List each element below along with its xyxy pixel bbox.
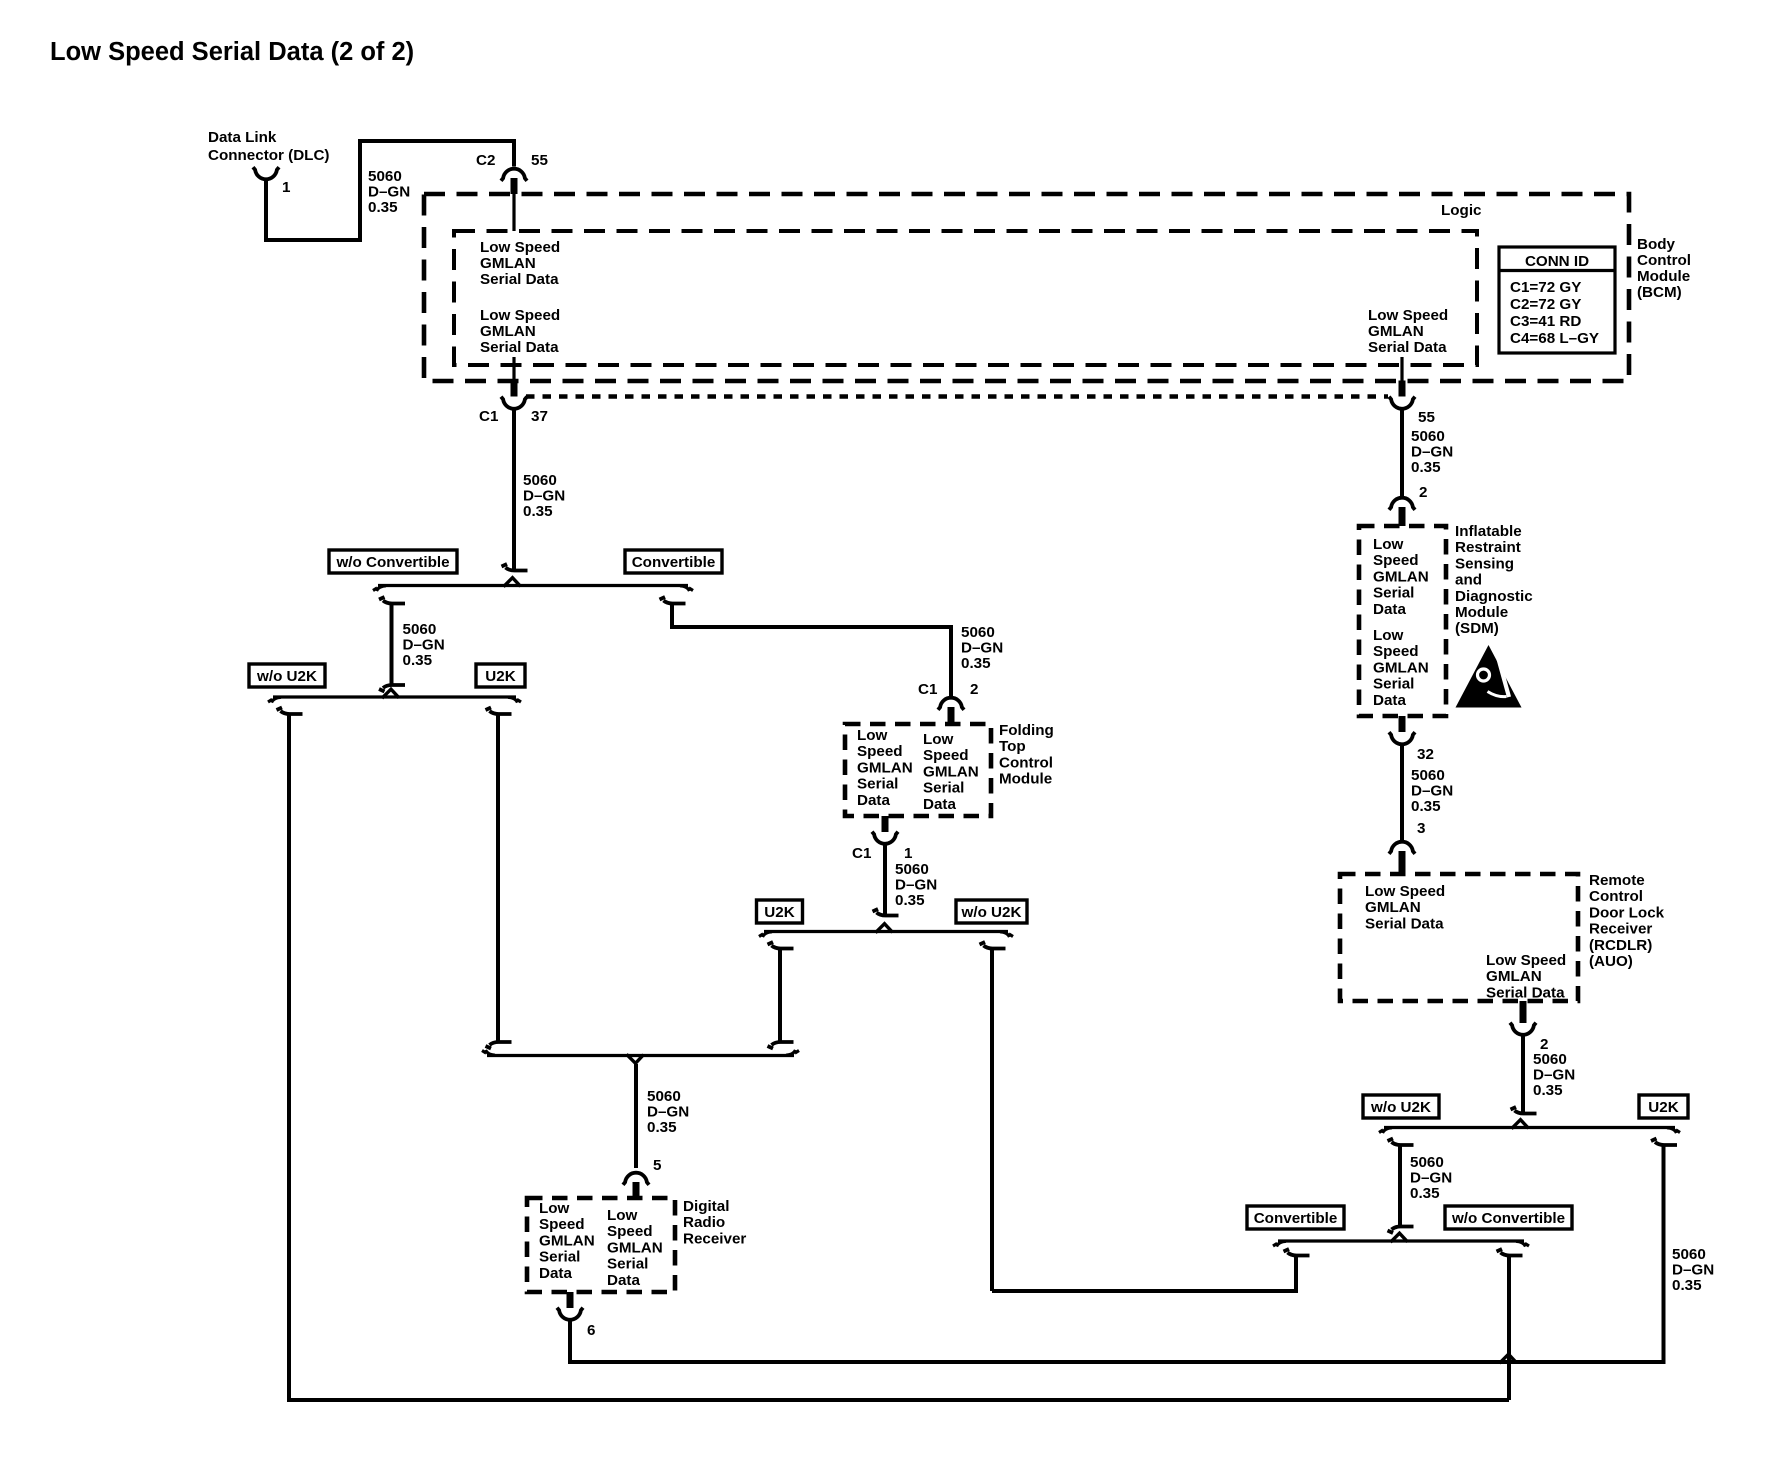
connector pin 2 (SDM) <box>1389 484 1427 526</box>
svg-text:Serial Data: Serial Data <box>1368 339 1447 356</box>
svg-text:Convertible: Convertible <box>1254 1210 1338 1227</box>
wire: DRR pin 6 to right-side bus <box>570 1321 1664 1364</box>
module box: Digital Radio Receiver <box>527 1198 675 1292</box>
node: Low Speed GMLAN Serial Data (SDM input) <box>1373 536 1429 618</box>
splice: radio junction gather line <box>482 1050 799 1063</box>
svg-text:Convertible: Convertible <box>632 554 716 571</box>
svg-text:Low: Low <box>607 1207 638 1224</box>
wire label 5060 D-GN 0.35 (FTCM drop) <box>895 861 937 909</box>
svg-text:Radio: Radio <box>683 1214 725 1231</box>
svg-text:(AUO): (AUO) <box>1589 953 1633 970</box>
option box: w/o U2K (FTCM branch) <box>956 900 1027 923</box>
connector pin 2 (RCDLR exit) <box>1510 1001 1548 1053</box>
svg-text:0.35: 0.35 <box>523 503 553 520</box>
svg-text:Sensing: Sensing <box>1455 555 1514 572</box>
wire: RCDLR 2 down to U2K option splice (5060 D-GN 0.35) <box>1521 1036 1525 1114</box>
svg-text:Serial: Serial <box>1373 676 1414 693</box>
wire: U2K branch (FTCM) down to radio junction <box>768 942 794 1049</box>
module box: Remote Control Door Lock Receiver (RCDLR) (AUO) <box>1340 874 1578 1001</box>
wire: DLC pin 1 to BCM C2 pin 55 (5060 D-GN 0.35) <box>266 141 514 240</box>
svg-text:Speed: Speed <box>857 743 903 760</box>
svg-text:2: 2 <box>1419 484 1427 501</box>
wire: U2K branch down to radio junction <box>486 708 512 1049</box>
svg-text:Low: Low <box>857 727 888 744</box>
svg-text:55: 55 <box>1418 409 1435 426</box>
svg-text:Serial Data: Serial Data <box>480 339 559 356</box>
svg-text:C1: C1 <box>852 845 872 862</box>
node: Low Speed GMLAN Serial Data (DRR output) <box>607 1207 663 1289</box>
svg-text:Low Speed: Low Speed <box>1486 952 1566 969</box>
svg-text:GMLAN: GMLAN <box>1373 568 1429 585</box>
module box: Inflatable Restraint Sensing and Diagnostic Module (SDM) <box>1359 526 1446 716</box>
svg-text:Diagnostic: Diagnostic <box>1455 588 1533 605</box>
wire: w/o Convertible branch down to bottom bus <box>1497 1249 1523 1400</box>
node: Low Speed GMLAN Serial Data (DRR input) <box>539 1200 595 1282</box>
svg-text:w/o Convertible: w/o Convertible <box>1451 1210 1565 1227</box>
svg-text:C1: C1 <box>918 681 938 698</box>
svg-text:Module: Module <box>1455 604 1508 621</box>
svg-text:Serial: Serial <box>607 1256 648 1273</box>
wire: junction down to Digital Radio Receiver pin 5 (5060 D-GN 0.35) <box>634 1064 638 1168</box>
wire: SDM 32 to RCDLR pin 3 (5060 D-GN 0.35) <box>1400 746 1404 841</box>
svg-text:GMLAN: GMLAN <box>923 763 979 780</box>
wire label 5060 D-GN 0.35 (w/o Convertible segment) <box>403 621 445 669</box>
svg-text:C2=72 GY: C2=72 GY <box>1510 296 1581 313</box>
option box: w/o Convertible <box>329 550 457 573</box>
label: Inflatable Restraint Sensing and Diagnostic Module (SDM) <box>1455 523 1533 637</box>
label: Body Control Module (BCM) <box>1637 236 1691 301</box>
svg-text:GMLAN: GMLAN <box>857 759 913 776</box>
label: Folding Top Control Module <box>999 722 1054 788</box>
svg-text:and: and <box>1455 572 1482 589</box>
svg-text:C1=72 GY: C1=72 GY <box>1510 279 1581 296</box>
module box: Body Control Module (BCM) <box>424 194 1629 381</box>
connector pin 32 (SDM exit) <box>1389 716 1434 763</box>
svg-text:1: 1 <box>904 845 913 862</box>
wire label 5060 D-GN 0.35 (radio drop) <box>647 1088 689 1136</box>
wire: FTCM C1-1 down to U2K splice (5060 D-GN 0.35) <box>883 845 887 916</box>
svg-text:w/o U2K: w/o U2K <box>256 668 317 685</box>
svg-text:Low: Low <box>1373 536 1404 553</box>
svg-text:2: 2 <box>970 681 978 698</box>
svg-text:Data: Data <box>857 792 890 809</box>
svg-text:Door Lock: Door Lock <box>1589 904 1665 921</box>
node: Low Speed GMLAN Serial Data (RCDLR output) <box>1486 952 1566 1001</box>
svg-text:C4=68 L–GY: C4=68 L–GY <box>1510 330 1599 347</box>
svg-text:Speed: Speed <box>607 1223 653 1240</box>
svg-text:Low: Low <box>923 731 954 748</box>
wire: w/o U2K branch (FTCM) down to Convertible link <box>980 942 1006 1291</box>
svg-text:5060: 5060 <box>523 472 557 489</box>
svg-text:Logic: Logic <box>1441 202 1482 219</box>
dotted internal bus link (C1-37 to pin 55) <box>526 394 1388 399</box>
svg-text:Serial: Serial <box>857 776 898 793</box>
wire: U2K branch (right) down to pin 6 bus (5060 D-GN 0.35) <box>1651 1139 1677 1363</box>
svg-text:U2K: U2K <box>764 904 794 921</box>
connector C2 pin 55 (BCM) <box>476 152 548 231</box>
svg-text:GMLAN: GMLAN <box>480 255 536 272</box>
svg-text:5: 5 <box>653 1157 662 1174</box>
sub-box: Logic (inside BCM) <box>454 231 1477 365</box>
svg-text:(RCDLR): (RCDLR) <box>1589 937 1652 954</box>
svg-text:U2K: U2K <box>1648 1099 1678 1116</box>
svg-text:0.35: 0.35 <box>647 1119 677 1136</box>
wire: BCM C1-37 down to Convertible option splice (5060 D-GN 0.35) <box>512 410 516 571</box>
splice: w/o U2K / U2K split line <box>268 689 521 702</box>
svg-text:Speed: Speed <box>1373 552 1419 569</box>
svg-text:0.35: 0.35 <box>1410 1185 1440 1202</box>
splice: U2K / w/o U2K split line (FTCM side) <box>759 924 1013 937</box>
option box: U2K <box>476 664 525 687</box>
svg-text:GMLAN: GMLAN <box>1368 323 1424 340</box>
svg-text:0.35: 0.35 <box>895 892 925 909</box>
option box: Convertible <box>625 550 722 573</box>
table: CONN ID (C1=72 GY, C2=72 GY, C3=41 RD, C4=68 L-GY) <box>1499 247 1615 353</box>
svg-text:Low Speed: Low Speed <box>480 239 560 256</box>
wire: w/o U2K branch segment (5060 D-GN 0.35) <box>1388 1139 1414 1234</box>
svg-text:Module: Module <box>1637 268 1690 285</box>
wire end splice <box>1511 1107 1537 1114</box>
svg-text:Low Speed Serial Data (2 of 2): Low Speed Serial Data (2 of 2) <box>50 38 414 66</box>
svg-text:5060: 5060 <box>1672 1246 1706 1263</box>
svg-text:Low Speed: Low Speed <box>1368 307 1448 324</box>
option box: U2K (RCDLR branch) <box>1639 1095 1688 1118</box>
svg-text:Control: Control <box>999 754 1053 771</box>
node: Low Speed GMLAN Serial Data (SDM output) <box>1373 627 1429 709</box>
svg-text:Serial Data: Serial Data <box>1365 915 1444 932</box>
svg-text:GMLAN: GMLAN <box>480 323 536 340</box>
node: Low Speed GMLAN Serial Data (RCDLR input) <box>1365 883 1445 932</box>
splice: junction on Digital Radio Receiver pin 6 line <box>1500 1354 1517 1363</box>
wire label 5060 D-GN 0.35 (DLC segment) <box>368 168 410 216</box>
svg-text:5060: 5060 <box>647 1088 681 1105</box>
svg-text:(SDM): (SDM) <box>1455 620 1499 637</box>
svg-text:Receiver: Receiver <box>683 1230 746 1247</box>
svg-text:Low Speed: Low Speed <box>480 307 560 324</box>
svg-text:5060: 5060 <box>895 861 929 878</box>
svg-text:Control: Control <box>1637 252 1691 269</box>
svg-text:0.35: 0.35 <box>1411 798 1441 815</box>
svg-text:Restraint: Restraint <box>1455 539 1521 556</box>
option box: w/o U2K <box>249 664 325 687</box>
svg-text:GMLAN: GMLAN <box>1373 659 1429 676</box>
svg-text:37: 37 <box>531 408 548 425</box>
svg-text:w/o U2K: w/o U2K <box>961 904 1022 921</box>
svg-text:Serial: Serial <box>1373 585 1414 602</box>
connector pin 55 (BCM right exit) <box>1389 357 1435 426</box>
node: Low Speed GMLAN Serial Data (FTCM input) <box>857 727 913 809</box>
label: Remote Control Door Lock Receiver (RCDLR) (AUO) <box>1589 872 1665 970</box>
connector C1 pin 1 (FTCM exit) <box>852 816 913 862</box>
wire label 5060 D-GN 0.35 (Convertible branch) <box>961 624 1003 672</box>
svg-text:5060: 5060 <box>1411 767 1445 784</box>
svg-text:w/o Convertible: w/o Convertible <box>335 554 449 571</box>
svg-text:w/o U2K: w/o U2K <box>1370 1099 1431 1116</box>
svg-text:D–GN: D–GN <box>1410 1170 1452 1187</box>
icon: airbag warning triangle <box>1456 645 1522 708</box>
wire label 5060 D-GN 0.35 (BCM to SDM) <box>1411 428 1453 476</box>
svg-text:Data: Data <box>1373 692 1406 709</box>
svg-text:5060: 5060 <box>403 621 437 638</box>
wire: Convertible branch to Folding Top Control Module C1 pin 2 (5060 D-GN 0.35) <box>660 597 952 696</box>
svg-text:Serial: Serial <box>539 1249 580 1266</box>
svg-text:GMLAN: GMLAN <box>607 1239 663 1256</box>
svg-text:5060: 5060 <box>1410 1154 1444 1171</box>
svg-text:3: 3 <box>1417 820 1425 837</box>
svg-text:D–GN: D–GN <box>1411 444 1453 461</box>
svg-text:Data Link: Data Link <box>208 129 277 146</box>
splice: w/o Convertible / Convertible split line <box>373 578 693 591</box>
svg-text:0.35: 0.35 <box>1672 1277 1702 1294</box>
node: Low Speed GMLAN Serial Data (BCM C1-37 output) <box>480 307 560 356</box>
connector pin 3 (RCDLR) <box>1389 820 1425 874</box>
wire: w/o U2K branch down-left to bottom bus <box>277 708 1510 1401</box>
svg-text:Folding: Folding <box>999 722 1054 739</box>
svg-text:Inflatable: Inflatable <box>1455 523 1522 540</box>
svg-text:Speed: Speed <box>539 1216 585 1233</box>
option box: U2K (FTCM branch) <box>757 900 803 923</box>
svg-text:Receiver: Receiver <box>1589 921 1652 938</box>
svg-text:Digital: Digital <box>683 1198 729 1215</box>
svg-text:Speed: Speed <box>923 747 969 764</box>
splice: RCDLR w/o U2K / U2K split line <box>1379 1120 1680 1133</box>
svg-text:D–GN: D–GN <box>895 877 937 894</box>
wire: Convertible branch to Folding Top w/o U2K vertical <box>992 1249 1310 1291</box>
connector DLC (Data Link Connector) <box>208 129 330 196</box>
svg-text:5060: 5060 <box>368 168 402 185</box>
svg-text:U2K: U2K <box>485 668 515 685</box>
wire label 5060 D-GN 0.35 (C1-37 drop) <box>523 472 565 520</box>
svg-text:D–GN: D–GN <box>1411 783 1453 800</box>
node: Low Speed GMLAN Serial Data (BCM C2-55 input) <box>480 239 560 288</box>
wire label 5060 D-GN 0.35 (RCDLR drop) <box>1533 1051 1575 1099</box>
svg-text:Serial: Serial <box>923 780 964 797</box>
splice: Convertible / w/o Convertible split line (RCDLR side) <box>1273 1233 1529 1246</box>
node: Low Speed GMLAN Serial Data (FTCM output) <box>923 731 979 813</box>
svg-text:(BCM): (BCM) <box>1637 284 1682 301</box>
svg-text:0.35: 0.35 <box>368 199 398 216</box>
svg-text:C2: C2 <box>476 152 495 169</box>
svg-text:D–GN: D–GN <box>1672 1262 1714 1279</box>
connector C1 pin 37 (BCM) <box>479 357 548 425</box>
svg-text:Low: Low <box>539 1200 570 1217</box>
svg-text:D–GN: D–GN <box>403 637 445 654</box>
svg-text:D–GN: D–GN <box>961 640 1003 657</box>
svg-text:D–GN: D–GN <box>1533 1067 1575 1084</box>
svg-text:Control: Control <box>1589 888 1643 905</box>
connector C1 pin 2 (Folding Top Control Module) <box>918 681 978 725</box>
svg-text:Data: Data <box>1373 601 1406 618</box>
svg-text:Body: Body <box>1637 236 1676 253</box>
svg-text:GMLAN: GMLAN <box>1365 899 1421 916</box>
svg-text:Connector (DLC): Connector (DLC) <box>208 147 330 164</box>
svg-text:0.35: 0.35 <box>1411 459 1441 476</box>
option box: Convertible (RCDLR branch) <box>1247 1206 1344 1229</box>
svg-text:32: 32 <box>1417 746 1434 763</box>
svg-text:Data: Data <box>607 1272 640 1289</box>
svg-text:6: 6 <box>587 1322 595 1339</box>
svg-text:0.35: 0.35 <box>1533 1082 1563 1099</box>
svg-text:0.35: 0.35 <box>961 655 991 672</box>
svg-text:1: 1 <box>282 179 291 196</box>
svg-text:5060: 5060 <box>1533 1051 1567 1068</box>
svg-text:5060: 5060 <box>961 624 995 641</box>
svg-text:D–GN: D–GN <box>647 1104 689 1121</box>
svg-text:55: 55 <box>531 152 548 169</box>
svg-text:Low Speed: Low Speed <box>1365 883 1445 900</box>
svg-text:Serial Data: Serial Data <box>480 271 559 288</box>
svg-text:Data: Data <box>923 796 956 813</box>
svg-text:D–GN: D–GN <box>368 184 410 201</box>
svg-text:GMLAN: GMLAN <box>539 1232 595 1249</box>
wire label 5060 D-GN 0.35 (U2K right branch) <box>1672 1246 1714 1294</box>
option box: w/o U2K (RCDLR branch) <box>1363 1095 1439 1118</box>
svg-text:Low: Low <box>1373 627 1404 644</box>
connector pin 5 (Digital Radio Receiver) <box>623 1157 662 1199</box>
svg-text:Module: Module <box>999 771 1052 788</box>
svg-text:CONN ID: CONN ID <box>1525 253 1589 270</box>
wire label 5060 D-GN 0.35 (SDM to RCDLR) <box>1411 767 1453 815</box>
connector pin 6 (DRR exit) <box>557 1292 595 1339</box>
svg-text:0.35: 0.35 <box>403 652 433 669</box>
svg-text:Data: Data <box>539 1265 572 1282</box>
svg-text:C3=41 RD: C3=41 RD <box>1510 313 1581 330</box>
module box: Folding Top Control Module <box>845 724 991 816</box>
option box: w/o Convertible (RCDLR branch) <box>1445 1206 1572 1229</box>
svg-text:D–GN: D–GN <box>523 488 565 505</box>
wire label 5060 D-GN 0.35 (w/o U2K segment) <box>1410 1154 1452 1202</box>
node: Low Speed GMLAN Serial Data (BCM pin 55 right output) <box>1368 307 1448 356</box>
label: Digital Radio Receiver <box>683 1198 746 1247</box>
svg-text:5060: 5060 <box>1411 428 1445 445</box>
svg-text:Serial Data: Serial Data <box>1486 984 1565 1001</box>
svg-text:Remote: Remote <box>1589 872 1645 889</box>
svg-text:Top: Top <box>999 738 1026 755</box>
svg-text:C1: C1 <box>479 408 499 425</box>
wire: BCM 55 to SDM pin 2 (5060 D-GN 0.35) <box>1400 410 1404 496</box>
svg-text:GMLAN: GMLAN <box>1486 968 1542 985</box>
wire: w/o Convertible branch segment (5060 D-GN 0.35) <box>379 597 405 692</box>
svg-text:Speed: Speed <box>1373 643 1419 660</box>
